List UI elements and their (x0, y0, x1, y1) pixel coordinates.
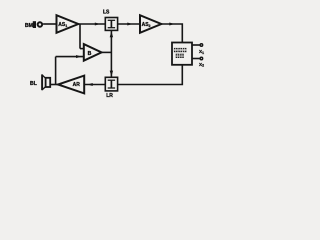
network box (anti-sidetone network) (172, 43, 192, 65)
attenuator LS (105, 18, 117, 31)
amplifier AS1 (57, 15, 79, 33)
svg-text:BL: BL (30, 81, 38, 87)
svg-text:AS2: AS2 (142, 22, 151, 28)
arrow on wire (169, 22, 174, 25)
wire tap to B lower input (56, 56, 84, 58)
wire tap to B upper input (80, 48, 84, 50)
wire mic to AS1 (43, 23, 56, 25)
svg-text:X2: X2 (199, 62, 204, 68)
svg-text:BM: BM (25, 23, 33, 29)
arrow down into LR (110, 71, 113, 77)
node junction send tap (79, 24, 81, 49)
microphone BM (33, 21, 42, 28)
svg-text:LR: LR (106, 93, 113, 99)
amplifier AR (58, 76, 84, 94)
svg-text:AS1: AS1 (58, 22, 67, 28)
wire LS to AS2 (118, 23, 140, 25)
wire LR to AR (84, 84, 105, 86)
comparator B (84, 44, 102, 61)
arrow into LS (95, 22, 100, 25)
network text row2 (2 chars) (176, 54, 184, 58)
arrow to AS2 (127, 22, 132, 25)
svg-text:LS: LS (103, 10, 110, 16)
node junction receive tap (55, 57, 57, 85)
svg-text:AR: AR (73, 82, 81, 88)
arrow toward AR (88, 83, 93, 86)
wire B output to control line (102, 51, 112, 53)
amplifier AS2 (140, 15, 161, 33)
wire AR to speaker (50, 84, 58, 86)
loudspeaker BL (42, 74, 50, 90)
terminal X1 (192, 44, 204, 55)
wire AS1 to LS (78, 23, 105, 25)
arrow up into LS (110, 31, 113, 37)
arrow into B (76, 55, 81, 58)
control line LS/LR (110, 30, 112, 77)
attenuator LR (105, 77, 117, 91)
svg-text:B: B (88, 51, 92, 57)
svg-text:X1: X1 (199, 49, 204, 55)
network text row1 (3 chars) (174, 48, 187, 52)
terminal X2 (192, 57, 204, 67)
wire network bottom to LR (118, 65, 183, 85)
wire AS2 to network box (161, 24, 182, 43)
